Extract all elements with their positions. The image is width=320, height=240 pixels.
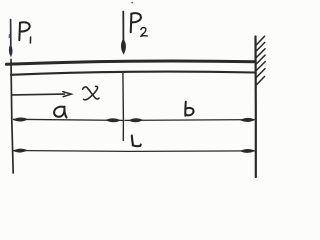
label P2 <box>131 13 148 36</box>
force arrow P1 <box>9 20 12 57</box>
label P1 <box>19 22 30 43</box>
label x (script) <box>83 86 99 99</box>
label a <box>54 107 67 118</box>
label L <box>132 136 141 147</box>
beam bottom line <box>11 72 255 75</box>
right arrowhead of b <box>241 118 255 121</box>
left arrowhead of a <box>14 118 28 121</box>
middle extension line (under P2) <box>122 73 125 141</box>
right arrowhead of a <box>106 119 121 122</box>
wall hatching <box>256 36 265 85</box>
coordinate arrow x <box>12 93 65 96</box>
dimension line b <box>125 119 254 122</box>
right arrowhead of L <box>241 149 255 152</box>
ink mark on P1 arrow <box>8 35 10 38</box>
arrowhead of P2 <box>121 39 125 54</box>
dimension line a <box>14 119 123 120</box>
label b <box>185 102 193 116</box>
beam top line <box>7 61 256 64</box>
beam left edge and left extension line <box>11 60 13 174</box>
left arrowhead of L <box>14 149 28 152</box>
left arrowhead of b <box>129 119 143 122</box>
dimension line L <box>14 150 255 153</box>
wall line (fixed support) <box>254 37 257 178</box>
stray ink dot <box>131 2 133 4</box>
force arrow P2 <box>122 12 124 41</box>
arrowhead of x <box>63 92 72 97</box>
